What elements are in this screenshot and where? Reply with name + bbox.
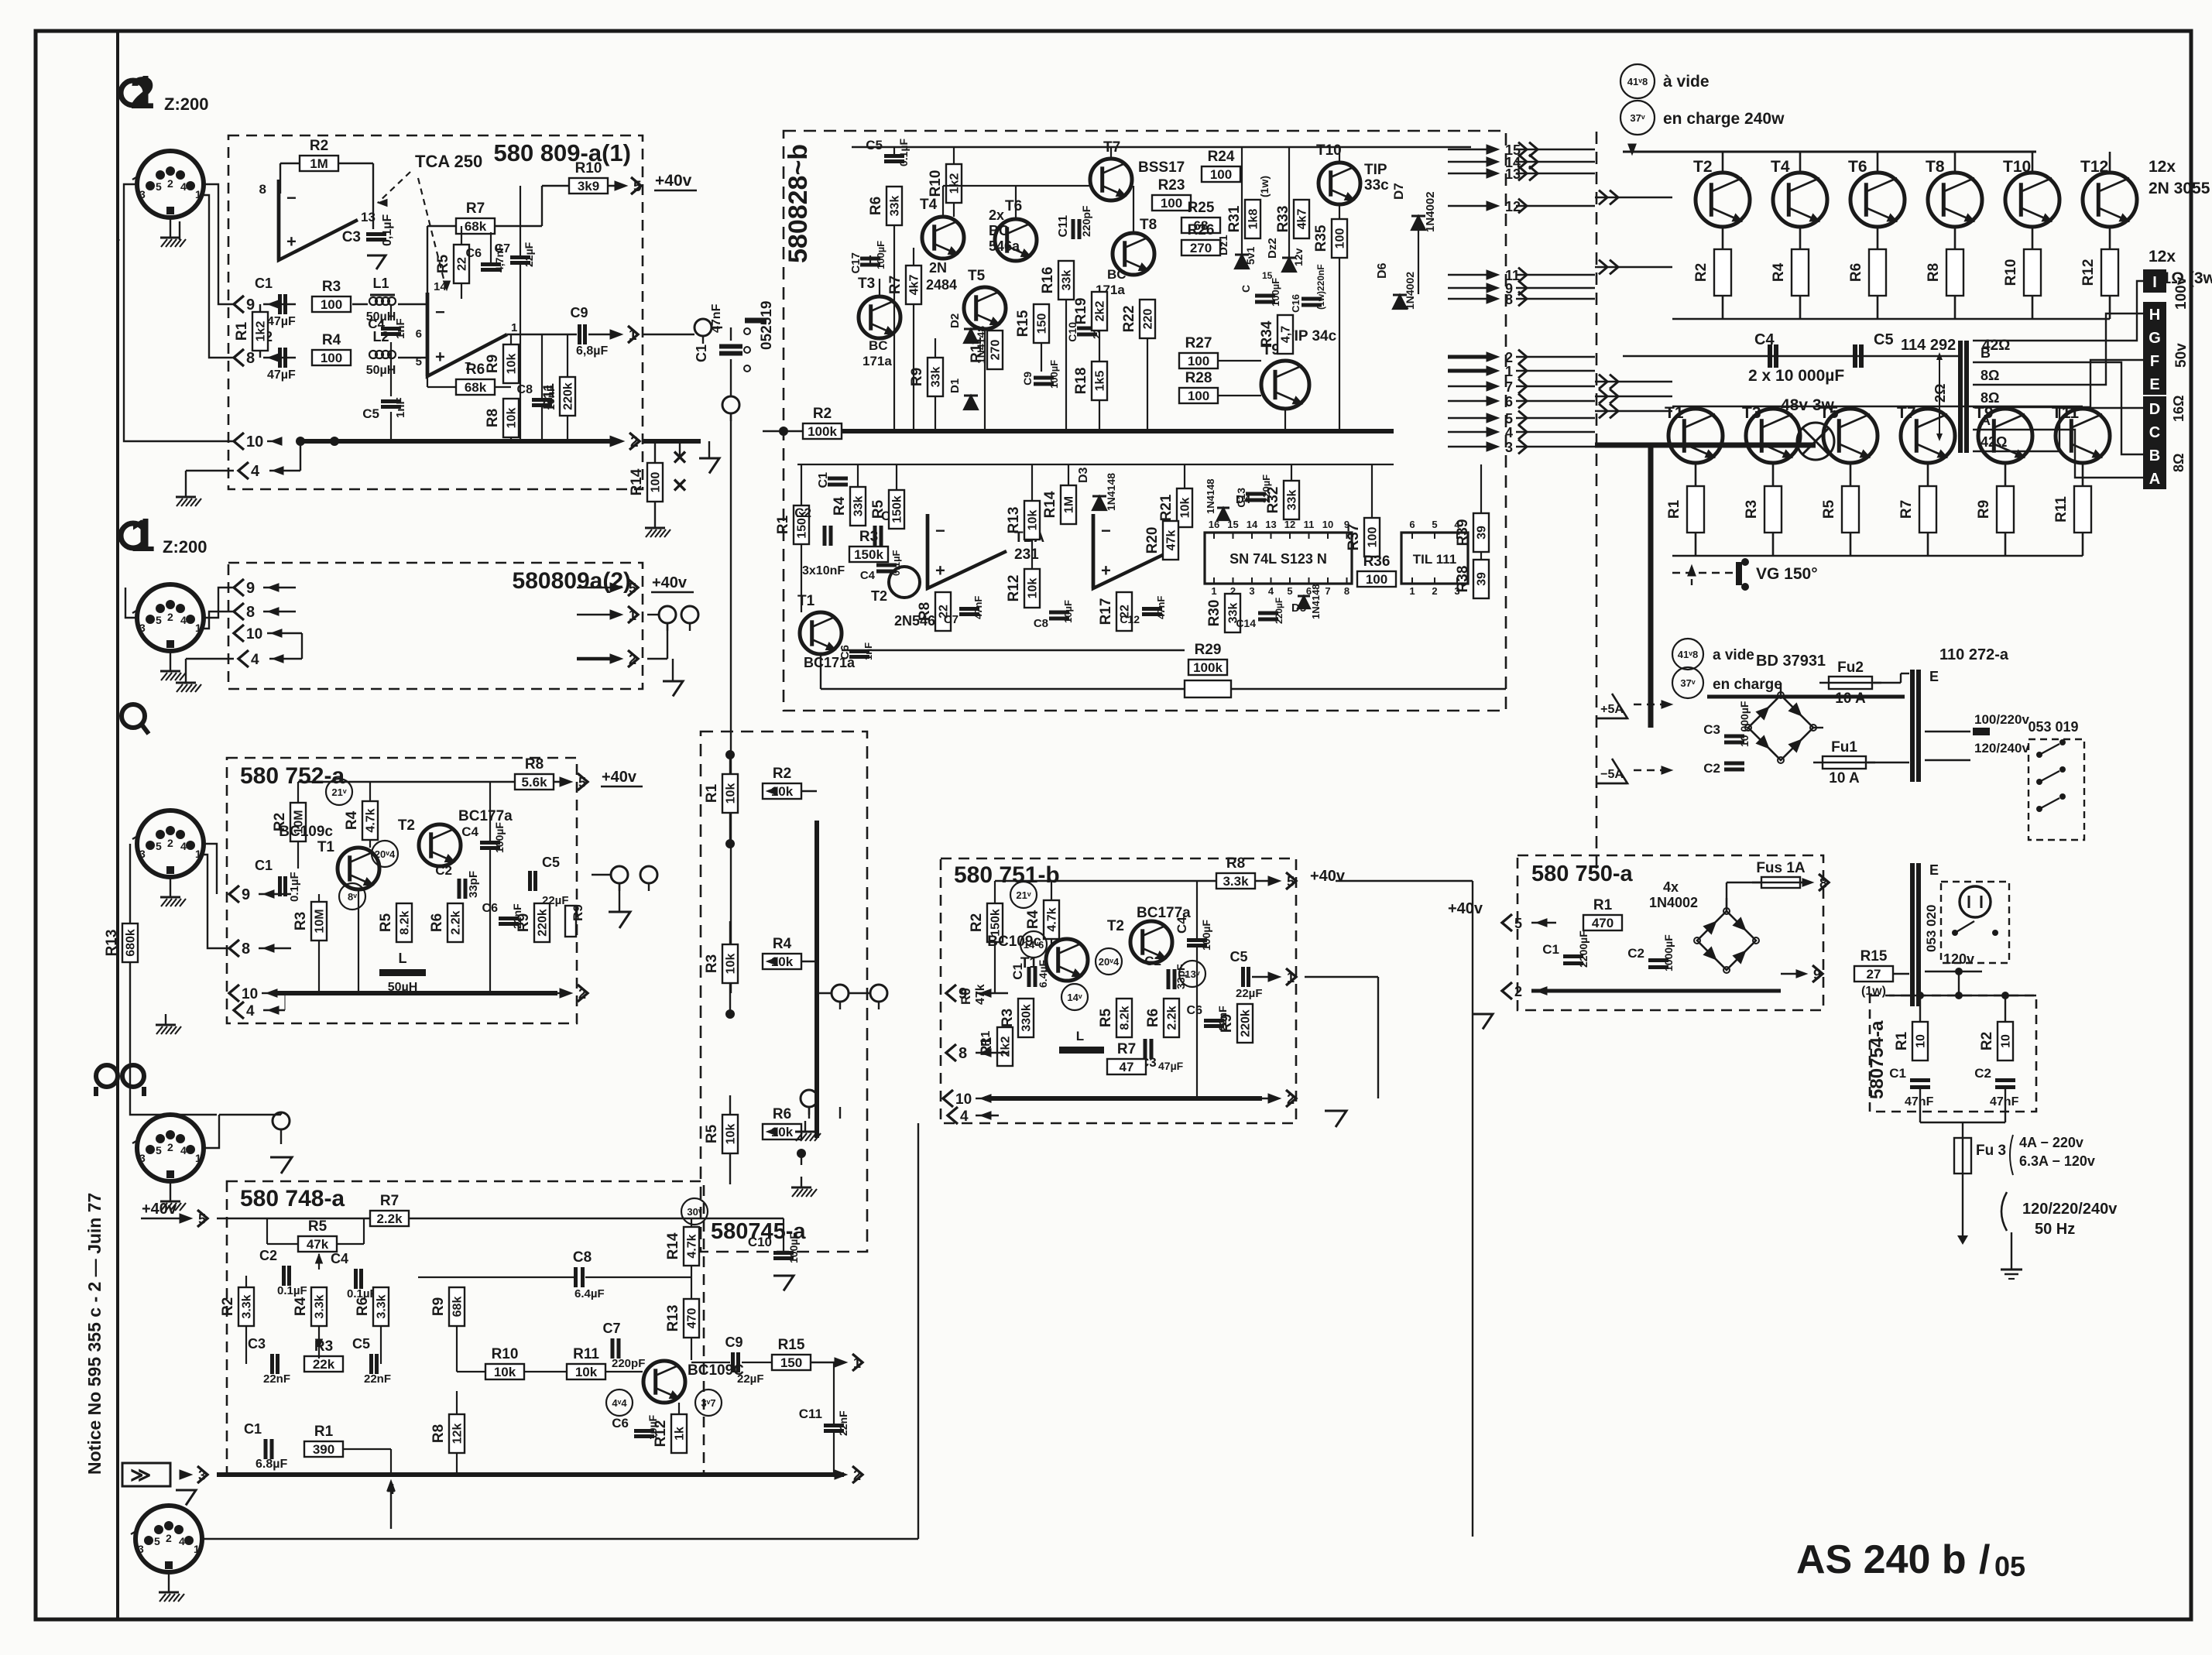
svg-text:+40v: +40v	[652, 574, 688, 591]
svg-text:L2: L2	[372, 329, 389, 344]
svg-text:C1: C1	[817, 472, 830, 488]
svg-text:R4: R4	[344, 810, 360, 830]
svg-text:R3: R3	[704, 954, 720, 973]
svg-text:6,8µF: 6,8µF	[576, 344, 608, 358]
svg-text:220µF: 220µF	[1274, 598, 1284, 624]
svg-text:5: 5	[1505, 411, 1513, 427]
svg-text:R21: R21	[1158, 494, 1175, 521]
svg-text:R5: R5	[1098, 1008, 1114, 1027]
svg-text:3.3k: 3.3k	[314, 1294, 327, 1318]
svg-text:33k: 33k	[889, 196, 902, 217]
svg-text:100µF: 100µF	[493, 822, 506, 853]
svg-text:220: 220	[1142, 309, 1155, 330]
svg-text:1: 1	[1211, 585, 1216, 597]
svg-text:220k: 220k	[1240, 1009, 1253, 1037]
svg-text:14ᵛ6: 14ᵛ6	[1024, 939, 1044, 951]
svg-text:R15: R15	[1860, 948, 1888, 965]
svg-text:21ᵛ: 21ᵛ	[331, 786, 346, 798]
svg-text:SN 74L S123 N: SN 74L S123 N	[1229, 551, 1327, 567]
svg-text:R36: R36	[1363, 553, 1391, 570]
svg-text:C12: C12	[1120, 613, 1140, 625]
svg-text:100µF: 100µF	[1270, 278, 1281, 307]
svg-text:R9: R9	[516, 913, 532, 932]
svg-text:T8: T8	[1926, 158, 1945, 176]
svg-text:R19: R19	[1073, 298, 1089, 325]
svg-text:R3: R3	[1744, 500, 1760, 519]
svg-text:47µF: 47µF	[267, 368, 296, 382]
svg-text:R4: R4	[773, 936, 792, 952]
svg-text:T3: T3	[1742, 404, 1761, 422]
svg-text:053 020: 053 020	[1924, 905, 1939, 952]
svg-text:R25: R25	[1188, 200, 1215, 216]
svg-text:1N4148: 1N4148	[1205, 478, 1216, 514]
svg-text:BD 37931: BD 37931	[1756, 653, 1826, 670]
svg-text:L: L	[1076, 1029, 1084, 1043]
svg-text:R3: R3	[293, 912, 309, 930]
svg-text:1N4148: 1N4148	[1310, 584, 1322, 619]
svg-text:E: E	[1929, 862, 1939, 878]
svg-text:100k: 100k	[1193, 660, 1223, 675]
svg-text:16Ω: 16Ω	[2171, 396, 2186, 422]
svg-text:T2: T2	[871, 588, 887, 604]
svg-text:7: 7	[1325, 585, 1330, 597]
svg-text:R39: R39	[1455, 519, 1471, 547]
svg-text:R11: R11	[2053, 496, 2070, 523]
svg-text:R12: R12	[1006, 575, 1022, 602]
svg-text:R6: R6	[429, 913, 445, 932]
svg-text:(1w): (1w)	[1258, 176, 1271, 197]
svg-text:68k: 68k	[451, 1297, 465, 1317]
svg-text:R2: R2	[773, 766, 791, 782]
svg-text:T8: T8	[1140, 217, 1157, 233]
svg-text:E: E	[2149, 376, 2159, 393]
svg-text:2484: 2484	[926, 277, 957, 293]
svg-text:1k5: 1k5	[1094, 371, 1107, 392]
svg-text:Fus 1A: Fus 1A	[1756, 860, 1806, 876]
svg-text:C2: C2	[1703, 761, 1720, 776]
svg-text:−: −	[286, 188, 297, 207]
svg-text:8: 8	[246, 350, 255, 367]
svg-text:C3: C3	[1703, 722, 1720, 737]
svg-text:C8: C8	[573, 1249, 592, 1266]
svg-text:C9: C9	[570, 305, 588, 320]
svg-text:50 Hz: 50 Hz	[2035, 1221, 2075, 1238]
svg-text:2k2: 2k2	[1000, 1037, 1013, 1057]
svg-text:2: 2	[1432, 585, 1437, 597]
svg-text:4: 4	[180, 180, 187, 193]
svg-text:R32: R32	[1265, 487, 1281, 514]
svg-text:R11: R11	[541, 383, 557, 409]
svg-text:47nF: 47nF	[710, 303, 723, 333]
svg-text:8: 8	[259, 182, 266, 197]
svg-text:052519: 052519	[759, 301, 775, 350]
svg-text:4: 4	[246, 1003, 255, 1019]
svg-text:2: 2	[130, 68, 155, 118]
svg-text:F: F	[2150, 353, 2159, 370]
svg-text:C4: C4	[368, 317, 385, 331]
svg-text:9: 9	[242, 886, 250, 903]
svg-text:9: 9	[246, 296, 255, 314]
svg-text:4: 4	[251, 463, 260, 480]
svg-text:BC177a: BC177a	[458, 808, 513, 824]
svg-text:C14: C14	[1236, 617, 1256, 629]
svg-text:1nF: 1nF	[394, 318, 407, 339]
svg-text:L: L	[399, 951, 407, 966]
svg-text:R28: R28	[1185, 370, 1212, 386]
svg-text:9: 9	[246, 580, 255, 597]
svg-text:231: 231	[1014, 547, 1039, 563]
svg-text:4: 4	[180, 840, 187, 852]
svg-text:41ᵛ8: 41ᵛ8	[1678, 649, 1698, 660]
svg-text:Fu 3: Fu 3	[1976, 1143, 2006, 1159]
svg-text:47k: 47k	[1165, 530, 1178, 551]
svg-text:TIP: TIP	[1364, 162, 1387, 178]
svg-text:4x: 4x	[1663, 879, 1679, 895]
svg-text:8: 8	[246, 604, 255, 621]
svg-text:3.3k: 3.3k	[376, 1294, 389, 1318]
svg-text:470: 470	[1592, 916, 1614, 930]
svg-text:100: 100	[1367, 527, 1380, 548]
svg-text:C: C	[1240, 285, 1252, 293]
svg-text:R5: R5	[704, 1124, 720, 1143]
svg-text:6.4µF: 6.4µF	[1037, 959, 1049, 988]
svg-text:R5: R5	[1821, 499, 1837, 519]
svg-text:20ᵛ4: 20ᵛ4	[375, 848, 396, 860]
svg-text:47nF: 47nF	[1905, 1095, 1934, 1108]
svg-text:VG 150°: VG 150°	[1756, 565, 1818, 583]
svg-text:2 x 10 000µF: 2 x 10 000µF	[1748, 367, 1844, 385]
svg-text:220k: 220k	[537, 909, 550, 937]
svg-text:22nF: 22nF	[837, 1410, 849, 1436]
svg-text:4A − 220v: 4A − 220v	[2019, 1135, 2083, 1150]
svg-text:4k7: 4k7	[1296, 209, 1309, 230]
svg-text:T5: T5	[968, 268, 986, 284]
svg-text:2.2k: 2.2k	[1166, 1006, 1179, 1030]
svg-text:R27: R27	[1185, 335, 1212, 351]
svg-text:C8: C8	[1034, 617, 1048, 630]
svg-text:10 A: 10 A	[1835, 690, 1866, 707]
svg-text:D3: D3	[1077, 467, 1090, 483]
svg-text:R5: R5	[308, 1218, 328, 1235]
svg-text:580 750-a: 580 750-a	[1531, 862, 1633, 886]
svg-text:C2: C2	[1627, 946, 1644, 961]
svg-text:580 748-a: 580 748-a	[240, 1186, 345, 1211]
svg-text:330k: 330k	[1020, 1004, 1034, 1032]
svg-text:R13: R13	[1006, 507, 1022, 534]
svg-text:150k: 150k	[891, 495, 904, 523]
svg-text:390: 390	[313, 1442, 334, 1457]
svg-text:37ᵛ: 37ᵛ	[1630, 112, 1644, 124]
svg-text:10k: 10k	[1027, 578, 1040, 599]
svg-text:+40v: +40v	[1448, 900, 1483, 917]
svg-text:10: 10	[246, 433, 263, 451]
svg-text:R30: R30	[1206, 600, 1223, 627]
svg-text:47nF: 47nF	[1990, 1095, 2019, 1108]
svg-text:120/220/240v: 120/220/240v	[2022, 1201, 2118, 1218]
svg-text:8: 8	[959, 1045, 967, 1062]
svg-text:R4: R4	[832, 496, 848, 516]
svg-text:C1: C1	[694, 344, 709, 362]
svg-text:100: 100	[1188, 389, 1209, 403]
svg-text:T2: T2	[1107, 918, 1124, 934]
svg-text:C5: C5	[542, 855, 560, 870]
svg-text:1M: 1M	[1063, 496, 1076, 513]
svg-text:5: 5	[1287, 585, 1292, 597]
svg-text:580828~b: 580828~b	[784, 144, 813, 263]
svg-text:R10: R10	[492, 1346, 519, 1362]
svg-text:R7: R7	[466, 200, 485, 217]
svg-text:580 752-a: 580 752-a	[240, 763, 345, 789]
svg-text:R3: R3	[1000, 1009, 1016, 1027]
svg-text:H: H	[2149, 307, 2160, 324]
svg-text:110 272-a: 110 272-a	[1939, 646, 2009, 663]
svg-text:G: G	[2149, 330, 2161, 347]
svg-text:+40v: +40v	[1310, 868, 1346, 885]
svg-text:R6: R6	[466, 361, 485, 378]
svg-text:R7: R7	[1898, 500, 1915, 519]
svg-text:22µF: 22µF	[1236, 987, 1263, 1000]
svg-text:+: +	[286, 231, 297, 251]
svg-text:C17: C17	[849, 252, 863, 274]
svg-text:10k: 10k	[725, 954, 738, 975]
svg-text:−: −	[935, 521, 945, 540]
svg-text:R7: R7	[887, 276, 904, 294]
svg-text:C9: C9	[1021, 372, 1034, 385]
svg-text:10k: 10k	[1179, 498, 1192, 519]
svg-text:22µF: 22µF	[523, 242, 535, 267]
svg-text:T1: T1	[797, 593, 815, 609]
svg-text:≫: ≫	[130, 1463, 151, 1486]
svg-text:R6: R6	[1145, 1009, 1161, 1027]
svg-text:3x10nF: 3x10nF	[802, 564, 845, 577]
svg-text:C3: C3	[248, 1336, 266, 1352]
svg-text:L1: L1	[372, 276, 389, 291]
svg-text:14: 14	[434, 280, 447, 293]
svg-text:0,1µF: 0,1µF	[381, 214, 394, 246]
svg-text:12v: 12v	[1292, 248, 1305, 266]
svg-text:R1: R1	[979, 1030, 993, 1047]
svg-text:R9: R9	[1976, 500, 1992, 519]
svg-text:10 A: 10 A	[1829, 770, 1860, 786]
svg-text:BSS17: BSS17	[1138, 159, 1185, 176]
svg-text:à vide: à vide	[1663, 73, 1710, 91]
svg-text:100v: 100v	[2173, 276, 2190, 310]
svg-text:R8: R8	[430, 1424, 447, 1443]
svg-text:10k: 10k	[506, 354, 519, 375]
svg-text:1: 1	[1505, 364, 1513, 379]
svg-text:C2: C2	[1974, 1066, 1991, 1081]
svg-text:1M: 1M	[310, 156, 328, 171]
svg-text:100: 100	[321, 351, 342, 365]
svg-text:C6: C6	[1187, 1004, 1203, 1017]
svg-text:580 751-b: 580 751-b	[954, 862, 1060, 888]
svg-text:−5A: −5A	[1600, 768, 1624, 781]
svg-text:1: 1	[194, 1543, 200, 1555]
svg-text:Notice No 595 355 c - 2 — Juin: Notice No 595 355 c - 2 — Juin 77	[84, 1193, 105, 1475]
svg-text:150k: 150k	[854, 547, 883, 562]
svg-text:T5: T5	[1819, 404, 1839, 422]
svg-text:−: −	[435, 302, 445, 321]
svg-text:2N 3055: 2N 3055	[2149, 180, 2210, 197]
svg-text:12k: 12k	[451, 1424, 465, 1444]
svg-text:68k: 68k	[465, 219, 487, 234]
svg-text:C8: C8	[517, 383, 533, 396]
svg-text:1N4148: 1N4148	[1105, 473, 1117, 511]
svg-text:R9: R9	[909, 368, 925, 386]
svg-text:R14: R14	[665, 1232, 681, 1259]
svg-text:C7: C7	[944, 613, 959, 626]
svg-text:10k: 10k	[575, 1365, 598, 1379]
svg-text:1: 1	[1409, 585, 1415, 597]
svg-text:8ᵛ: 8ᵛ	[348, 891, 357, 903]
svg-text:C7: C7	[495, 242, 511, 255]
svg-text:8: 8	[1505, 292, 1513, 307]
svg-text:1k8: 1k8	[1247, 209, 1260, 230]
svg-text:150k: 150k	[989, 909, 1003, 937]
svg-text:2x: 2x	[989, 207, 1004, 223]
svg-text:en charge 240w: en charge 240w	[1663, 110, 1785, 128]
svg-text:10M: 10M	[314, 909, 327, 933]
svg-text:100: 100	[321, 297, 342, 312]
svg-text:5: 5	[1432, 519, 1437, 530]
svg-text:I: I	[2152, 274, 2157, 291]
svg-text:C5: C5	[1874, 331, 1894, 348]
svg-text:T1: T1	[317, 839, 335, 855]
svg-text:33pF: 33pF	[467, 871, 480, 898]
svg-text:14ᵛ: 14ᵛ	[1067, 992, 1082, 1003]
svg-text:4.7k: 4.7k	[365, 808, 378, 832]
svg-text:50v: 50v	[2173, 343, 2190, 368]
svg-text:R12: R12	[2080, 259, 2097, 286]
svg-text:R10: R10	[575, 160, 602, 176]
svg-text:C4: C4	[461, 824, 478, 839]
svg-text:R35: R35	[1313, 224, 1329, 252]
svg-text:C7: C7	[602, 1321, 620, 1336]
svg-text:R15: R15	[778, 1337, 805, 1353]
svg-text:220k: 220k	[562, 382, 575, 410]
svg-text:T1: T1	[1665, 404, 1684, 422]
svg-text:+: +	[1101, 561, 1111, 581]
svg-text:R4: R4	[293, 1297, 309, 1316]
svg-text:22k: 22k	[313, 1357, 335, 1372]
svg-text:R22: R22	[1121, 306, 1137, 333]
svg-text:5: 5	[1514, 916, 1522, 931]
svg-text:R4: R4	[1025, 910, 1041, 929]
svg-text:2: 2	[167, 611, 173, 623]
svg-text:T10: T10	[2003, 158, 2031, 176]
svg-text:R13: R13	[665, 1305, 681, 1332]
svg-text:68k: 68k	[465, 380, 487, 395]
svg-text:10k: 10k	[725, 1124, 738, 1145]
svg-text:39: 39	[1476, 526, 1489, 540]
svg-text:12x: 12x	[2149, 248, 2176, 266]
svg-text:BC109c: BC109c	[279, 824, 333, 840]
svg-text:2.2k: 2.2k	[376, 1211, 403, 1226]
svg-text:C4: C4	[1175, 917, 1189, 934]
svg-text:R13: R13	[104, 930, 120, 957]
svg-text:3: 3	[138, 1543, 144, 1555]
svg-text:/: /	[1979, 1537, 1990, 1582]
svg-text:580 809-a(1): 580 809-a(1)	[493, 139, 631, 166]
svg-text:6.8µF: 6.8µF	[255, 1458, 287, 1471]
svg-text:T6: T6	[1848, 158, 1867, 176]
svg-text:6: 6	[416, 327, 422, 341]
svg-text:D7: D7	[1391, 183, 1406, 200]
svg-text:R1: R1	[775, 515, 791, 534]
svg-text:Z:200: Z:200	[164, 94, 208, 114]
svg-text:37ᵛ: 37ᵛ	[1680, 677, 1695, 689]
svg-text:E: E	[1929, 669, 1939, 684]
svg-text:6: 6	[1409, 519, 1415, 530]
svg-text:150: 150	[780, 1355, 802, 1370]
svg-text:5v1: 5v1	[1244, 246, 1257, 265]
svg-text:R1: R1	[1666, 499, 1682, 519]
svg-text:4k7: 4k7	[908, 275, 921, 296]
svg-text:T6: T6	[1005, 198, 1022, 214]
svg-text:2N: 2N	[929, 260, 947, 276]
svg-text:100: 100	[1210, 167, 1232, 182]
svg-text:4: 4	[180, 1144, 187, 1156]
svg-text:8: 8	[1344, 585, 1349, 597]
svg-text:4: 4	[960, 1108, 969, 1125]
svg-text:4,7: 4,7	[1280, 326, 1293, 343]
svg-text:C1: C1	[1010, 963, 1025, 980]
svg-text:33pF: 33pF	[1175, 964, 1187, 989]
svg-text:27: 27	[1867, 967, 1881, 982]
svg-text:R2: R2	[310, 138, 328, 154]
svg-text:R5: R5	[378, 913, 394, 932]
svg-text:D1: D1	[948, 379, 962, 393]
svg-text:8Ω: 8Ω	[1981, 368, 1999, 383]
svg-text:4.7k: 4.7k	[1046, 907, 1059, 931]
svg-text:R6: R6	[868, 197, 884, 215]
svg-text:1k2: 1k2	[948, 173, 962, 194]
svg-text:T12: T12	[2080, 158, 2108, 176]
svg-text:2: 2	[166, 1532, 172, 1544]
svg-text:R9: R9	[571, 904, 585, 921]
svg-text:9: 9	[959, 985, 967, 1002]
svg-text:C11: C11	[1057, 215, 1070, 238]
svg-text:R6: R6	[355, 1297, 371, 1316]
svg-text:8Ω: 8Ω	[2171, 454, 2186, 472]
svg-text:5: 5	[156, 1144, 162, 1156]
svg-text:T3: T3	[858, 276, 875, 292]
svg-text:−: −	[1101, 521, 1111, 540]
svg-text:10k: 10k	[725, 783, 738, 804]
svg-text:0.1µF: 0.1µF	[288, 872, 301, 902]
svg-text:AS 240 b: AS 240 b	[1796, 1537, 1967, 1582]
svg-text:1k2: 1k2	[255, 321, 268, 342]
svg-text:3: 3	[139, 188, 146, 200]
svg-text:114 292: 114 292	[1901, 337, 1956, 354]
svg-text:Fu1: Fu1	[1831, 739, 1857, 756]
svg-text:R9: R9	[1219, 1014, 1235, 1033]
svg-text:4ᵛ4: 4ᵛ4	[612, 1397, 627, 1409]
svg-text:100µF: 100µF	[1200, 920, 1212, 951]
svg-text:R9: R9	[430, 1297, 447, 1316]
svg-text:R6: R6	[773, 1106, 791, 1122]
svg-text:100: 100	[1334, 228, 1347, 249]
svg-text:100: 100	[1161, 196, 1182, 211]
svg-text:R38: R38	[1455, 566, 1471, 593]
svg-text:R2: R2	[1979, 1032, 1995, 1050]
svg-text:R1: R1	[704, 783, 720, 803]
svg-text:13: 13	[1265, 519, 1276, 530]
svg-text:C: C	[2149, 424, 2160, 441]
svg-text:1k: 1k	[674, 1427, 687, 1441]
svg-text:R2: R2	[220, 1297, 236, 1316]
svg-text:C1: C1	[244, 1421, 262, 1437]
